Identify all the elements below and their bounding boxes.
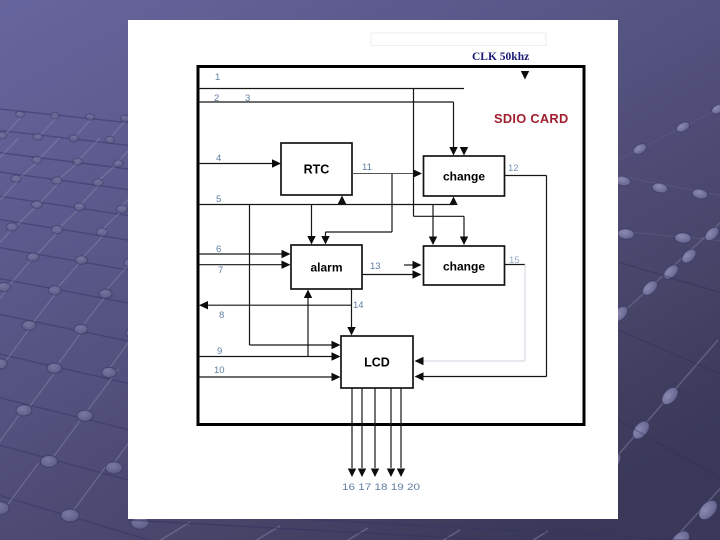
svg-text:8: 8 [219,310,224,321]
change block U2 [424,246,505,285]
svg-text:LCD: LCD [364,356,390,370]
wire from RTC output down into alarm top [321,174,392,245]
LCD pin 17 wire [358,388,366,477]
pin 4 wire into RTC [199,159,281,167]
wire 11 RTC to change U1 [352,169,422,177]
svg-text:12: 12 [508,163,519,174]
LCD pin 19 wire [387,388,395,477]
pin 5 wire [199,204,454,206]
wire 15 change U2 output [505,264,526,266]
faint wire change U2 to LCD right [415,265,526,366]
change block U1 [424,156,505,196]
svg-text:4: 4 [216,153,221,164]
pin 8 wire out of node on line 14 [199,301,352,309]
faint CLK textbox outline [371,33,546,46]
pin 7 wire into alarm [199,261,291,269]
RTC block [281,143,352,195]
slide white area [128,20,618,519]
svg-text:change: change [443,170,485,184]
svg-text:7: 7 [218,265,223,276]
svg-text:CLK 50khz: CLK 50khz [472,51,529,63]
svg-text:1: 1 [215,72,220,83]
LCD pin 18 wire [371,388,379,477]
wire 12 change U1 to LCD right [415,176,547,381]
svg-text:9: 9 [217,346,222,357]
pin 9 wire into LCD [199,352,341,360]
wire 14 alarm bottom to LCD top [347,289,355,336]
svg-text:14: 14 [353,300,364,311]
wire line2 down into change U1 top [449,102,457,156]
svg-text:change: change [443,260,485,274]
wire line5 down to LCD left input [250,205,341,350]
svg-text:RTC: RTC [304,163,330,177]
pin 10 wire into LCD [199,373,341,381]
wire line1-branch down to change U2 top [414,89,469,245]
wire 13 alarm to change U2 [362,270,422,278]
outer SDIO card box [198,67,584,425]
pin 2 wire [199,101,454,103]
LCD pin 16 wire [348,388,356,477]
wire line5 down into alarm top [307,205,315,245]
svg-text:13: 13 [370,261,381,272]
CLK input arrowhead [521,71,529,80]
wire line5 up into change U1 bottom [449,197,457,206]
short arrow into change U2 left [404,261,422,269]
wire line5 down into change U2 top [429,205,437,246]
LCD pin 20 wire [397,388,405,477]
svg-text:16 17 18 19 20: 16 17 18 19 20 [342,482,420,493]
svg-text:10: 10 [214,365,225,376]
wire pin9 node up into alarm bottom [304,290,312,357]
arrowhead into change U1 top (from line 1) [460,147,468,156]
svg-text:SDIO CARD: SDIO CARD [494,111,569,126]
wire line5 up into RTC bottom [338,196,346,205]
pin 6 wire into alarm [199,250,291,258]
svg-text:6: 6 [216,244,221,255]
svg-text:5: 5 [216,194,221,205]
pin 1 wire [199,88,464,90]
alarm block [291,245,362,289]
LCD block [341,336,413,388]
svg-text:11: 11 [362,162,372,173]
svg-text:alarm: alarm [310,261,342,275]
